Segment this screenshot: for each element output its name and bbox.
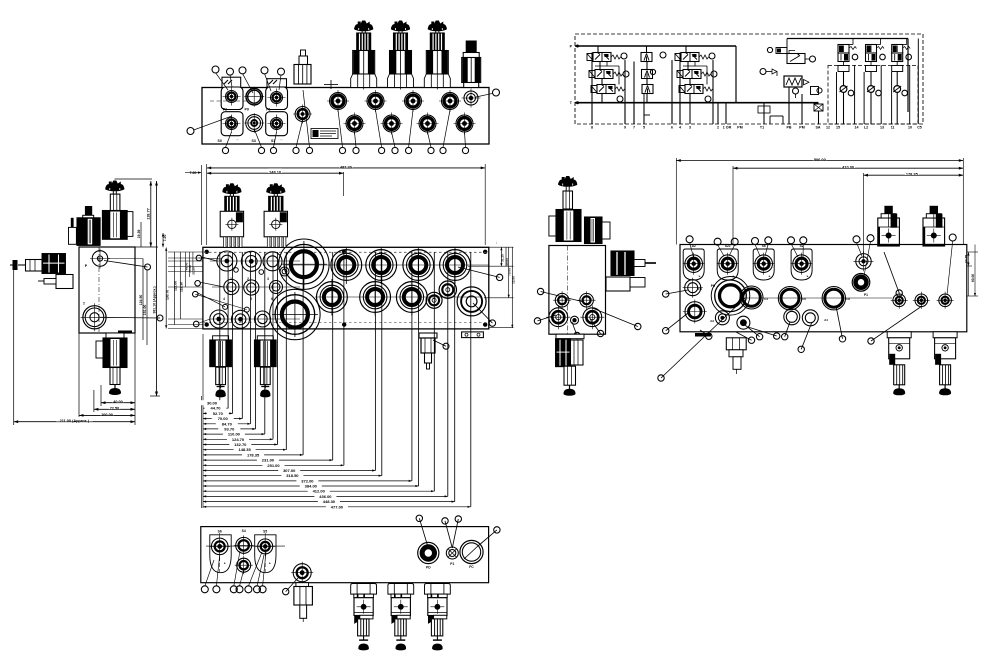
svg-text:FC: FC — [469, 565, 474, 569]
svg-text:178.35: 178.35 — [247, 452, 260, 457]
svg-text:↔: ↔ — [236, 138, 239, 142]
svg-text:P3: P3 — [223, 108, 227, 112]
svg-text:3: 3 — [267, 277, 269, 281]
svg-text:P1: P1 — [864, 293, 868, 297]
svg-text:12: 12 — [826, 125, 830, 129]
svg-text:40.00: 40.00 — [113, 400, 123, 404]
svg-text:4: 4 — [223, 297, 225, 301]
svg-text:P9: P9 — [245, 108, 249, 112]
svg-text:6: 6 — [671, 125, 673, 129]
svg-text:PM: PM — [799, 125, 804, 129]
svg-text:19.39: 19.39 — [137, 230, 141, 239]
svg-text:251.00: 251.00 — [267, 463, 280, 468]
svg-text:S22: S22 — [725, 244, 731, 248]
svg-text:410.00: 410.00 — [842, 165, 854, 170]
svg-text:24.25: 24.25 — [964, 255, 968, 263]
svg-text:S6: S6 — [218, 530, 222, 534]
svg-text:C4: C4 — [764, 297, 768, 301]
svg-text:C5: C5 — [917, 125, 922, 129]
svg-text:100.00: 100.00 — [101, 413, 113, 417]
svg-text:122.00: 122.00 — [174, 281, 178, 291]
svg-text:381.10 (Approx.): 381.10 (Approx.) — [152, 286, 156, 313]
svg-text:PM: PM — [737, 125, 742, 129]
svg-text:P1: P1 — [266, 108, 270, 112]
svg-text:40.00: 40.00 — [505, 258, 509, 266]
svg-text:31.25: 31.25 — [192, 267, 196, 275]
svg-text:►: ► — [698, 274, 701, 278]
svg-text:118.77: 118.77 — [147, 208, 151, 219]
svg-text:PB: PB — [787, 125, 792, 129]
svg-text:7: 7 — [633, 125, 635, 129]
svg-text:151.00: 151.00 — [143, 305, 147, 316]
svg-text:L2: L2 — [864, 125, 868, 129]
svg-text:SA: SA — [816, 125, 821, 129]
svg-text:31.25: 31.25 — [500, 254, 504, 262]
svg-text:130.70: 130.70 — [166, 290, 170, 300]
svg-text:124.50: 124.50 — [139, 295, 143, 306]
svg-text:248.10: 248.10 — [269, 170, 281, 175]
svg-text:487.20: 487.20 — [340, 164, 352, 169]
svg-text:P1: P1 — [450, 562, 454, 566]
svg-text:75.00: 75.00 — [508, 268, 512, 276]
svg-text:►: ► — [224, 561, 227, 565]
svg-text:318.50: 318.50 — [286, 473, 299, 478]
svg-text:15: 15 — [836, 125, 840, 129]
svg-text:477.00: 477.00 — [331, 504, 344, 509]
svg-text:S5: S5 — [263, 530, 267, 534]
svg-text:S4: S4 — [242, 529, 246, 533]
svg-text:2: 2 — [717, 125, 719, 129]
svg-text:4: 4 — [679, 125, 681, 129]
svg-text:178.35: 178.35 — [906, 172, 919, 177]
svg-text:►: ► — [768, 274, 771, 278]
svg-text:211.00 (Approx.): 211.00 (Approx.) — [60, 419, 90, 423]
svg-text:PH: PH — [711, 284, 716, 288]
svg-text:10: 10 — [908, 125, 912, 129]
svg-text:14: 14 — [855, 125, 859, 129]
svg-text:5: 5 — [643, 125, 645, 129]
svg-text:S0: S0 — [218, 139, 222, 143]
svg-text:3: 3 — [689, 125, 691, 129]
svg-text:9: 9 — [624, 125, 626, 129]
svg-text:12.50: 12.50 — [511, 276, 515, 284]
svg-text:60.00: 60.00 — [971, 274, 975, 282]
svg-text:↔: ↔ — [280, 138, 283, 142]
svg-text:T1: T1 — [760, 125, 764, 129]
svg-text:7.80: 7.80 — [190, 171, 197, 175]
svg-text:72.50: 72.50 — [110, 407, 120, 411]
svg-text:2: 2 — [247, 277, 249, 281]
svg-text:C8: C8 — [846, 297, 850, 301]
svg-text:8: 8 — [591, 125, 593, 129]
svg-text:A3: A3 — [710, 319, 714, 323]
svg-text:A4: A4 — [824, 318, 828, 322]
svg-text:↓: ↓ — [496, 241, 498, 245]
svg-text:S6: S6 — [762, 244, 766, 248]
svg-text:PD: PD — [426, 566, 431, 570]
svg-text:►: ► — [806, 274, 809, 278]
svg-text:1: 1 — [230, 277, 232, 281]
svg-text:13: 13 — [880, 125, 884, 129]
svg-text:11: 11 — [891, 125, 895, 129]
svg-text:S3: S3 — [252, 139, 256, 143]
svg-text:►: ► — [269, 561, 272, 565]
svg-text:A2: A2 — [692, 244, 696, 248]
svg-text:1 OR: 1 OR — [723, 125, 732, 129]
svg-text:C6: C6 — [802, 297, 806, 301]
svg-text:506.00: 506.00 — [814, 157, 826, 162]
